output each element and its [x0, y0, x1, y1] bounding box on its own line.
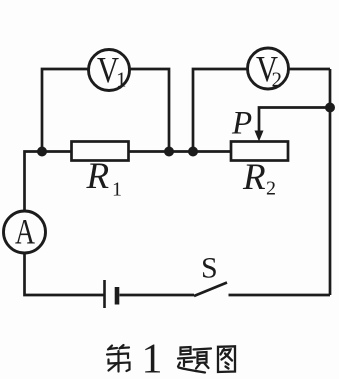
wire switch to right rail	[229, 294, 331, 297]
svg-text:R: R	[86, 156, 110, 197]
wire main left segment	[25, 152, 72, 212]
wire right rail	[329, 69, 332, 295]
slider arrowhead	[255, 131, 264, 142]
svg-text:2: 2	[272, 68, 283, 92]
svg-text:1: 1	[142, 337, 163, 379]
node junction dot V1 right	[164, 147, 174, 157]
voltmeter V2	[248, 48, 289, 89]
wire V1 right branch	[130, 69, 170, 152]
svg-text:S: S	[201, 252, 218, 285]
caption char TU (图)	[218, 346, 235, 372]
switch S lever	[194, 283, 227, 297]
svg-text:P: P	[231, 106, 252, 142]
svg-text:R: R	[242, 157, 266, 198]
resistor R1	[72, 142, 129, 161]
ammeter A	[4, 211, 46, 253]
svg-text:2: 2	[266, 178, 276, 200]
caption char TI (题)	[178, 347, 211, 373]
node junction dot slider on right rail	[325, 103, 335, 113]
wire V1 left branch	[42, 69, 89, 152]
wire slider to right rail	[259, 108, 330, 134]
wire ammeter to battery	[25, 253, 105, 295]
rheostat R2	[231, 142, 288, 161]
battery long plate	[103, 280, 106, 308]
svg-text:A: A	[15, 212, 35, 252]
node junction dot left	[37, 147, 47, 157]
battery short plate	[115, 287, 120, 305]
node junction dot V2 left	[188, 147, 198, 157]
svg-text:1: 1	[112, 179, 122, 201]
voltmeter V1	[89, 50, 130, 91]
wire R1 to R2	[129, 150, 232, 153]
wire V2 right	[289, 68, 331, 71]
wire battery to switch	[120, 294, 195, 297]
caption char DI (第)	[107, 345, 130, 372]
wire V2 left branch	[193, 69, 248, 152]
svg-text:1: 1	[116, 68, 127, 92]
